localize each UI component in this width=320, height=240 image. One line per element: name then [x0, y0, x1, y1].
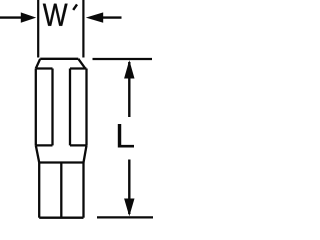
node: label W — [43, 4, 68, 26]
node: down arrowhead — [124, 199, 134, 217]
wire: W' left arrow shaft — [0, 16, 22, 18]
node: right arrowhead — [86, 12, 103, 22]
node: up arrowhead — [124, 60, 134, 78]
wire: left prong inner edge — [51, 69, 53, 146]
wire: left prong top edge — [36, 67, 53, 69]
wire: left taper — [36, 145, 39, 162]
wire: left prong outer edge — [35, 69, 37, 146]
wire: top left chamfer — [36, 59, 40, 69]
node: label L — [118, 124, 134, 148]
wire: left prong bottom edge — [36, 144, 53, 146]
wire: terminal top edge — [40, 58, 78, 60]
wire: right prong bottom edge — [70, 144, 87, 146]
wire: W' right extension line — [82, 0, 84, 58]
wire: right prong inner edge — [69, 69, 71, 146]
wire: top right chamfer — [78, 59, 85, 69]
wire: right prong outer edge — [85, 69, 87, 146]
wire: barrel top edge — [39, 161, 83, 163]
wire: L bottom extension line — [97, 216, 153, 218]
technical dimension drawing of fork terminal — [0, 0, 153, 224]
wire: right prong top edge — [70, 67, 87, 69]
wire: L dimension line upper — [128, 62, 130, 117]
wire: barrel right edge — [82, 163, 84, 218]
wire: W' right arrow shaft — [103, 16, 122, 18]
wire: right taper — [84, 145, 87, 162]
node: left arrowhead — [21, 12, 36, 22]
node: label prime — [73, 4, 77, 9]
wire: L top extension line — [93, 58, 153, 60]
wire: W' left extension line — [37, 0, 39, 58]
wire: L dimension line lower — [128, 160, 130, 215]
wire: barrel seam center line — [60, 163, 62, 218]
wire: barrel bottom edge — [39, 217, 83, 219]
wire: barrel left edge — [38, 163, 40, 218]
